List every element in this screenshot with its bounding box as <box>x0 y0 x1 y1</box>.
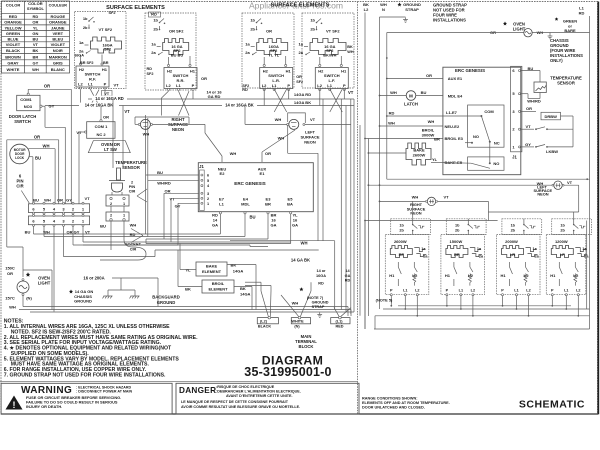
svg-text:OR: OR <box>44 84 50 89</box>
svg-text:RD: RD <box>389 110 395 115</box>
svg-text:LKBW: LKBW <box>546 149 558 154</box>
connector row 2 <box>28 216 89 225</box>
bus 14 or 16GA RD <box>88 98 354 100</box>
svg-text:WHITE: WHITE <box>7 67 20 72</box>
svg-text:INJURY OR DEATH.: INJURY OR DEATH. <box>26 404 62 409</box>
svg-text:OR: OR <box>201 76 207 81</box>
svg-text:RED: RED <box>335 324 343 328</box>
surface element unit LR outer box <box>242 13 294 88</box>
svg-text:1: 1 <box>123 214 125 218</box>
svg-text:J1: J1 <box>199 164 204 169</box>
svg-text:VT: VT <box>525 124 531 129</box>
svg-text:14GA RD: 14GA RD <box>294 92 311 97</box>
wire from oven dr sw up to bus <box>100 106 102 120</box>
svg-text:OR: OR <box>57 198 63 203</box>
svg-text:VT: VT <box>310 117 316 122</box>
svg-text:VT: VT <box>124 109 130 114</box>
svg-text:WH: WH <box>275 117 282 122</box>
svg-text:NO: NO <box>473 134 479 139</box>
right surface neon lamp <box>140 119 150 129</box>
svg-text:COM: COM <box>484 109 494 114</box>
svg-text:WHITE: WHITE <box>291 320 304 324</box>
green or bare ground <box>549 33 551 35</box>
svg-text:BROIL: BROIL <box>212 281 225 286</box>
bake element 2600W <box>406 143 431 165</box>
svg-text:L1: L1 <box>459 289 463 293</box>
svg-text:150C: 150C <box>5 266 15 271</box>
svg-text:OR SF2: OR SF2 <box>169 29 184 34</box>
svg-text:5: 5 <box>207 179 209 183</box>
svg-text:(N): (N) <box>26 296 32 301</box>
connector row 1 <box>28 204 89 213</box>
ground strap symbol <box>380 16 406 18</box>
svg-text:RD: RD <box>579 10 585 15</box>
wire ERC L1-E7 <box>387 115 482 117</box>
svg-text:ONLY): ONLY) <box>550 58 563 63</box>
svg-text:STRAP: STRAP <box>312 305 325 309</box>
schematic bottom border <box>374 328 590 330</box>
svg-text:J1: J1 <box>512 155 517 160</box>
svg-text:(NOTE 5): (NOTE 5) <box>376 297 393 302</box>
chassis ground symbol 2 <box>130 296 140 298</box>
svg-text:E2: E2 <box>220 171 226 176</box>
long vertical wires right of ERC <box>317 153 319 240</box>
svg-text:LATCH: LATCH <box>404 102 418 107</box>
svg-text:WH: WH <box>390 90 397 95</box>
svg-text:AUX E1: AUX E1 <box>448 76 463 81</box>
svg-text:BR: BR <box>434 137 440 142</box>
svg-text:YL: YL <box>33 25 39 30</box>
svg-text:WH: WH <box>230 151 237 156</box>
svg-text:SF2: SF2 <box>147 72 154 76</box>
svg-text:2b: 2b <box>83 25 88 30</box>
wire drops unit LR to bus <box>263 89 265 105</box>
svg-text:BLOCK: BLOCK <box>299 344 314 349</box>
svg-text:2a: 2a <box>245 50 250 55</box>
svg-text:L2: L2 <box>471 289 475 293</box>
svg-text:H1: H1 <box>190 69 196 74</box>
svg-text:RD: RD <box>242 88 248 92</box>
schematic unit LR box <box>497 235 541 295</box>
svg-text:!: ! <box>13 400 16 410</box>
svg-text:H1: H1 <box>389 273 395 278</box>
oven dr lt sw label <box>88 141 130 153</box>
svg-text:COM 1: COM 1 <box>95 124 108 129</box>
oven door light switch box COM1 NC2 <box>87 122 115 139</box>
svg-text:1a: 1a <box>299 42 304 47</box>
separator line above warning row <box>0 381 358 383</box>
svg-text:1a: 1a <box>245 42 250 47</box>
svg-text:WH: WH <box>43 143 50 148</box>
N feed funnel <box>281 295 299 316</box>
svg-text:INSTALLATIONS: INSTALLATIONS <box>433 18 466 23</box>
svg-text:2b: 2b <box>310 27 315 32</box>
main terminal block N <box>291 318 310 324</box>
svg-text:L1: L1 <box>327 83 332 88</box>
svg-text:1200W: 1200W <box>555 239 568 244</box>
svg-text:(N): (N) <box>294 324 300 328</box>
svg-text:GA: GA <box>345 274 351 278</box>
right surface neon (schematic) <box>380 200 428 202</box>
svg-text:BROIL E3: BROIL E3 <box>445 136 464 141</box>
svg-text:P: P <box>192 83 195 88</box>
svg-text:BU: BU <box>25 230 31 235</box>
svg-text:YELLOW: YELLOW <box>4 25 21 30</box>
svg-text:OR: OR <box>296 75 302 79</box>
svg-text:LE MANQUE DE RESPECT DE CETTE: LE MANQUE DE RESPECT DE CETTE CONSIGNE P… <box>181 400 289 404</box>
svg-text:BU: BU <box>33 37 39 42</box>
2 pin cir connector A <box>106 195 129 206</box>
svg-text:GA: GA <box>292 223 298 228</box>
svg-text:ROUGE: ROUGE <box>50 14 65 19</box>
unit RF drops to buses <box>390 296 392 306</box>
svg-text:GROUND: GROUND <box>74 299 92 304</box>
svg-text:VT: VT <box>113 83 119 88</box>
svg-text:1b: 1b <box>153 18 158 23</box>
wires down to temperature sensor <box>112 99 114 168</box>
schematic unit LF switch 1b/2b <box>552 219 592 235</box>
svg-text:ELEMENT: ELEMENT <box>202 269 222 274</box>
svg-text:WH: WH <box>278 136 285 141</box>
wire bundle from connector to ERC <box>33 226 35 234</box>
top feed bus for surface units <box>365 220 498 222</box>
svg-text:L1: L1 <box>219 201 224 206</box>
svg-text:DOOR UNLATCHED AND CLOSED.: DOOR UNLATCHED AND CLOSED. <box>362 406 425 410</box>
svg-text:OR: OR <box>526 106 532 111</box>
svg-text:AVANT D'ENTRETENIR CETTE UNITE: AVANT D'ENTRETENIR CETTE UNITE. <box>226 394 293 398</box>
bus 14 or 16GA BK <box>45 105 354 107</box>
svg-text:WH: WH <box>412 194 419 199</box>
wires from ERC bottom terminals <box>219 214 221 234</box>
svg-text:WH: WH <box>44 198 51 203</box>
svg-text:SWITCH: SWITCH <box>14 119 31 124</box>
surface element unit RR outer box <box>145 13 196 90</box>
oven light (schematic) <box>503 22 507 26</box>
svg-text:SENSOR: SENSOR <box>557 81 575 86</box>
broil element wires <box>178 286 202 288</box>
svg-text:16 or 200A: 16 or 200A <box>83 276 104 281</box>
schematic left branch wire <box>386 33 388 180</box>
svg-text:BU: BU <box>33 198 39 203</box>
svg-text:BK: BK <box>347 45 353 49</box>
svg-text:L2: L2 <box>166 83 171 88</box>
svg-text:L1: L1 <box>88 82 93 87</box>
svg-text:BU: BU <box>249 214 255 219</box>
svg-text:ELEMENT: ELEMENT <box>208 287 228 292</box>
svg-text:SCHEMATIC: SCHEMATIC <box>519 399 585 411</box>
svg-text:NEON: NEON <box>410 211 421 216</box>
svg-text:2b: 2b <box>153 27 158 32</box>
svg-text:SURFACE ELEMENTS: SURFACE ELEMENTS <box>271 3 330 9</box>
ERC GENESIS box (schematic) <box>443 67 521 175</box>
svg-text:WH: WH <box>301 240 308 245</box>
svg-text:NOIR: NOIR <box>53 48 63 53</box>
svg-text:VT: VT <box>443 194 449 199</box>
svg-text:OR: OR <box>265 151 271 156</box>
svg-text:NEON: NEON <box>304 140 316 145</box>
svg-text:BLEU: BLEU <box>52 37 63 42</box>
svg-text:14 or: 14 or <box>316 269 326 273</box>
svg-text:H1: H1 <box>550 273 556 278</box>
ERC relay 1 <box>468 105 504 147</box>
schematic inner rails <box>359 125 361 316</box>
svg-text:14 or 16GA BK: 14 or 16GA BK <box>85 103 114 108</box>
svg-text:BK: BK <box>185 287 191 292</box>
svg-text:L2: L2 <box>78 82 83 87</box>
svg-text:BU: BU <box>100 224 106 229</box>
feed to RF switch <box>412 201 414 218</box>
boxed VT label <box>102 91 113 97</box>
L2 feed funnel <box>245 281 261 283</box>
svg-text:NC: NC <box>494 140 500 145</box>
svg-text:JAUNE: JAUNE <box>51 25 65 30</box>
svg-text:7. GROUND STRAP NOT USED FOR F: 7. GROUND STRAP NOT USED FOR FOUR WIRE I… <box>4 373 166 379</box>
svg-text:: DISCONNECT POWER AT MAIN: : DISCONNECT POWER AT MAIN <box>76 390 133 394</box>
main terminal block L1 <box>331 318 350 324</box>
svg-text:VIOLET: VIOLET <box>6 42 21 47</box>
svg-text:ERC GENESIS: ERC GENESIS <box>234 181 265 186</box>
svg-text:VIOLET: VIOLET <box>51 42 66 47</box>
svg-text:1500W: 1500W <box>450 239 463 244</box>
svg-text:WH: WH <box>292 300 299 305</box>
svg-text:L2: L2 <box>262 83 267 88</box>
wire 16 or 200A <box>112 277 158 279</box>
svg-text:RF: RF <box>399 252 405 257</box>
svg-text:1: 1 <box>123 202 125 206</box>
svg-text:VT: VT <box>84 196 90 201</box>
wires ERC left AUX <box>387 78 443 80</box>
bake element wires <box>180 269 196 271</box>
svg-text:BU: BU <box>157 170 163 175</box>
diagram/schematic divider <box>357 2 359 415</box>
svg-text:P: P <box>551 289 554 293</box>
ERC relay 2 <box>468 157 504 170</box>
svg-text:BLANC: BLANC <box>51 67 65 72</box>
2 pin cir connector B <box>106 212 129 221</box>
J1 column (schematic) <box>511 66 522 152</box>
svg-text:2000W: 2000W <box>505 239 518 244</box>
label 14 GA BK <box>288 258 313 263</box>
svg-text:(NOTE 7): (NOTE 7) <box>307 296 324 300</box>
svg-text:LT SW: LT SW <box>104 147 117 152</box>
schematic bottom buses <box>398 305 571 307</box>
svg-text:(L1): (L1) <box>336 320 344 324</box>
svg-text:RD: RD <box>345 279 351 283</box>
svg-text:COULEUR: COULEUR <box>49 4 68 8</box>
socket loop wire <box>110 221 112 250</box>
svg-text:P: P <box>104 82 107 87</box>
svg-text:BLACK: BLACK <box>6 48 20 53</box>
svg-text:2b: 2b <box>250 27 255 32</box>
svg-text:L2: L2 <box>576 289 580 293</box>
svg-text:2a: 2a <box>299 50 304 55</box>
svg-text:H1: H1 <box>445 273 451 278</box>
svg-text:2600W: 2600W <box>413 152 426 157</box>
svg-text:OR: OR <box>103 114 109 119</box>
wire VT from oven dr sw <box>79 131 85 133</box>
svg-text:BLACK: BLACK <box>258 324 272 328</box>
surface element unit RF outer box <box>75 12 127 89</box>
svg-text:L1: L1 <box>514 289 518 293</box>
svg-text:1: 1 <box>207 202 209 206</box>
unit LR drops to buses <box>502 296 504 306</box>
element RR 16GA SF2 <box>163 39 189 55</box>
svg-text:RED: RED <box>9 14 18 19</box>
svg-text:COLOR: COLOR <box>6 3 21 8</box>
svg-text:1a: 1a <box>151 42 156 47</box>
svg-text:BK: BK <box>33 48 39 53</box>
motor door lock <box>10 144 30 164</box>
chassis ground label <box>69 290 73 294</box>
switch box R.R. <box>164 68 197 89</box>
oven light wires <box>22 295 24 307</box>
unit RR drops to buses <box>446 296 448 306</box>
chassis ground symbol 1 <box>103 296 113 298</box>
wire from left neon to units <box>578 185 580 212</box>
wires to J1 pins <box>146 174 199 176</box>
svg-text:OR: OR <box>7 271 13 276</box>
svg-text:ORANGE: ORANGE <box>49 20 67 25</box>
svg-text:NEON: NEON <box>537 192 548 197</box>
element LR 16GA SF2 <box>257 39 288 55</box>
svg-text:14 or 16GA BK: 14 or 16GA BK <box>225 103 254 108</box>
svg-text:P: P <box>287 83 290 88</box>
svg-text:SYMBOL: SYMBOL <box>27 6 45 11</box>
svg-text:L2: L2 <box>415 289 419 293</box>
svg-text:GY: GY <box>33 60 39 65</box>
temperature sensor probe <box>109 168 125 192</box>
svg-text:3: 3 <box>207 192 209 196</box>
svg-text:P: P <box>343 83 346 88</box>
svg-text:GROUND: GROUND <box>312 300 329 304</box>
warning triangle icon <box>6 396 23 410</box>
svg-text:14 GA BK: 14 GA BK <box>291 257 310 262</box>
svg-text:H1: H1 <box>102 67 108 72</box>
svg-text:2b: 2b <box>399 229 404 233</box>
svg-text:OR: OR <box>165 189 171 194</box>
svg-text:2: 2 <box>207 197 209 201</box>
svg-text:2b: 2b <box>511 229 516 233</box>
L1 feed funnel <box>334 308 339 317</box>
danger box <box>176 383 359 414</box>
bottom bus wires <box>23 306 348 308</box>
svg-text::DEBRANCHER L'ALIMENTATION ELE: :DEBRANCHER L'ALIMENTATION ELECTRIQUE. <box>216 390 301 394</box>
svg-text:BACKGUARD: BACKGUARD <box>152 295 179 300</box>
svg-text:LIGHT: LIGHT <box>513 27 526 32</box>
wires to left surface neon <box>262 123 287 125</box>
svg-text:SF2: SF2 <box>104 47 112 52</box>
svg-text:GY: GY <box>66 198 72 203</box>
svg-text:RD: RD <box>147 67 153 71</box>
svg-text:NEON: NEON <box>172 127 184 132</box>
svg-text:16GA: 16GA <box>74 54 84 58</box>
svg-text:WH/RD: WH/RD <box>527 99 541 104</box>
left surface neon (schematic) <box>368 184 553 186</box>
svg-text:YL YL: YL YL <box>268 52 280 57</box>
svg-text:WH: WH <box>428 119 435 124</box>
svg-text:2: 2 <box>131 181 133 185</box>
broil element box <box>202 280 234 293</box>
svg-text:N: N <box>382 7 385 12</box>
svg-text:BU: BU <box>35 156 41 161</box>
svg-text:2b: 2b <box>455 229 460 233</box>
svg-text:CIR: CIR <box>130 248 137 252</box>
svg-text:VERT: VERT <box>52 31 63 36</box>
svg-text:P: P <box>446 289 449 293</box>
wire drops unit RR to bus <box>162 91 169 98</box>
svg-text:(L2): (L2) <box>260 320 268 324</box>
svg-text:RD: RD <box>318 282 324 286</box>
svg-text:14GA: 14GA <box>240 292 251 297</box>
svg-text:VT SF2: VT SF2 <box>326 29 340 34</box>
svg-text:BU BU: BU BU <box>171 52 184 57</box>
svg-text:BR SF2: BR SF2 <box>80 61 94 65</box>
main terminal block L2 <box>257 318 278 324</box>
schematic unit LR switch 1b/2b <box>502 219 542 235</box>
svg-text:VT: VT <box>33 42 39 47</box>
svg-text:WH/RD: WH/RD <box>157 181 171 186</box>
svg-text:1b: 1b <box>250 18 255 23</box>
wire GY from door latch <box>42 105 45 107</box>
svg-text:CIR: CIR <box>16 184 23 189</box>
svg-text:BR: BR <box>265 201 271 206</box>
svg-text:CIR: CIR <box>129 190 136 194</box>
ground strap label <box>398 3 402 7</box>
svg-text:2b: 2b <box>560 229 565 233</box>
svg-text:LIGHT: LIGHT <box>38 281 51 286</box>
svg-text:H1: H1 <box>286 69 292 74</box>
svg-text:OR: OR <box>266 29 272 34</box>
svg-text:M: M <box>409 93 413 98</box>
svg-text:L2: L2 <box>317 83 322 88</box>
svg-text:OR: OR <box>32 20 38 25</box>
svg-text:LF: LF <box>560 252 565 257</box>
svg-text:L1-E7: L1-E7 <box>446 110 458 115</box>
wire color legend table <box>2 1 70 73</box>
svg-text:14GA: 14GA <box>233 269 244 274</box>
svg-text:MDL E4: MDL E4 <box>448 94 463 99</box>
svg-text:GRIS: GRIS <box>53 60 63 65</box>
svg-text:L1: L1 <box>272 83 277 88</box>
svg-text:P: P <box>501 289 504 293</box>
svg-text:VT SF2: VT SF2 <box>99 27 113 32</box>
svg-text:VT: VT <box>169 197 175 202</box>
label 14 or 16GA BK mid <box>222 103 257 108</box>
svg-text:L1: L1 <box>176 83 181 88</box>
svg-text:2a: 2a <box>151 50 156 55</box>
schematic unit RF box <box>385 235 429 295</box>
svg-text:BR: BR <box>103 61 109 65</box>
ERC GENESIS controller box <box>198 163 313 212</box>
svg-text:BU: BU <box>421 90 427 95</box>
svg-text:NEU-E2: NEU-E2 <box>445 124 460 129</box>
svg-text:GY: GY <box>49 104 55 109</box>
svg-text:6: 6 <box>207 174 209 178</box>
oven light lamp <box>17 281 29 293</box>
svg-text:GA: GA <box>271 223 277 228</box>
svg-text:WH: WH <box>9 305 16 310</box>
oven light wire <box>387 32 524 34</box>
switch box L.R. <box>260 68 293 89</box>
svg-text:GA RD: GA RD <box>208 94 221 99</box>
svg-text:AVOIR COMME RESULTAT UNE BLESS: AVOIR COMME RESULTAT UNE BLESSURE GRAVE … <box>181 405 300 409</box>
svg-text:RD: RD <box>130 232 136 237</box>
left surface neon lamp (left diagram) <box>289 119 299 129</box>
svg-text:1b: 1b <box>83 16 88 21</box>
svg-text:1b: 1b <box>511 223 516 227</box>
switch box L.F. <box>315 68 348 89</box>
svg-text:YL: YL <box>432 157 438 162</box>
